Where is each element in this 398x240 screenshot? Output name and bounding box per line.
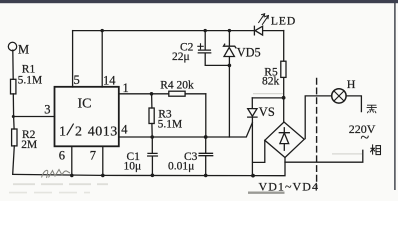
junction VD5 / top rail [228,29,231,32]
bridge inner diode [279,128,289,150]
svg-text:4: 4 [121,122,128,136]
wire bottom rail [13,158,285,176]
wire pin4 [119,123,253,137]
gray streak under bridge [248,191,285,193]
wire phase (xiang) [285,150,363,162]
top dark bar [0,0,398,3]
svg-text:4013: 4013 [88,125,118,140]
junction VS cathode / bottom rail [251,174,255,178]
char ling (neutral) [367,105,377,113]
svg-text:5.1M: 5.1M [18,75,43,87]
wire pin14 drop [101,31,103,87]
capacitor C3 [199,137,213,175]
wire pin3 [13,116,54,118]
svg-text:M: M [18,42,29,56]
resistor R3 [151,94,154,137]
wire VS top [252,97,283,99]
resistor R2 [12,129,17,146]
svg-text:2M: 2M [21,139,37,151]
svg-text:6: 6 [59,149,65,163]
wire pin7 [102,147,104,175]
LED [254,26,262,35]
junction C3 top / pin4 wire [204,135,208,139]
thyristor VS [248,98,257,175]
svg-text:0.01μ: 0.01μ [168,161,194,173]
scan ghost artifacts [9,94,362,193]
junction R5 / VS wire [282,96,286,100]
wire pin1 [119,93,206,95]
resistor R1 [11,79,16,94]
junction R3 top / pin1 wire [150,92,154,96]
wire left rail [13,50,15,174]
svg-text:~: ~ [361,130,370,147]
svg-text:1: 1 [123,81,129,95]
wire pin5 drop [72,31,74,87]
capacitor C1 [148,137,158,175]
svg-text:14: 14 [103,73,116,87]
junction pin6 / bottom rail [70,174,74,178]
dashed boundary line [316,79,318,188]
wire bridge right to lamp [305,96,332,139]
capacitor C2 plus sign [198,44,203,49]
svg-text:5.1M: 5.1M [158,118,183,130]
junction pin7 / bottom rail [101,174,105,178]
junction C2 / VD5 line [228,64,232,68]
right page border [394,3,396,190]
svg-text:VD5: VD5 [237,46,261,60]
svg-text:2: 2 [75,125,82,140]
wire pin6 [71,147,73,175]
capacitor C2 [198,31,229,66]
svg-text:1: 1 [59,125,66,140]
junction pin14 / top rail [101,29,104,32]
junction pin3 / left rail [12,115,15,118]
resistor R5 [283,31,285,123]
resistor R4 [169,91,185,96]
diode VD5 (zener) [224,31,236,48]
svg-text:LED: LED [271,14,296,28]
junction C1 / bottom rail [151,174,155,178]
svg-text:IC: IC [78,97,92,112]
node M terminal [8,42,16,50]
junction C2 / top rail [204,29,207,32]
wire top rail [73,30,284,32]
svg-text:VD1~VD4: VD1~VD4 [259,179,320,193]
wire bridge left to VS [253,140,265,162]
svg-text:R4 20k: R4 20k [160,80,194,92]
svg-text:5: 5 [74,73,80,87]
svg-text:VS: VS [259,105,275,119]
IC 1/2 4013 box [55,87,119,147]
svg-text:82k: 82k [262,76,280,88]
LED arrows [259,14,269,25]
wire R4 corner drop [205,94,207,137]
svg-text:H: H [347,77,356,91]
svg-text:7: 7 [90,149,96,163]
wire lamp to neutral [346,96,361,112]
bridge rectifier VD1-VD4 diamond [265,122,304,158]
junction R3 bottom / pin4 wire [150,135,154,139]
svg-text:3: 3 [44,103,50,117]
char xiang (phase) [370,144,380,154]
svg-text:22μ: 22μ [172,51,190,63]
junction C3 / bottom rail [204,174,208,178]
lamp H [332,89,346,103]
svg-text:10μ: 10μ [124,161,142,173]
squiggle artifact [42,170,71,179]
